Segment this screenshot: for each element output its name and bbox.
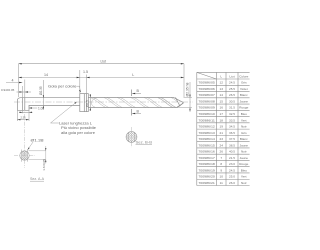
svg-text:700986/07: 700986/07 xyxy=(198,93,215,97)
svg-text:26.0: 26.0 xyxy=(229,181,235,185)
svg-text:Bleu: Bleu xyxy=(241,168,247,172)
svg-text:21.5: 21.5 xyxy=(229,156,235,160)
svg-text:23: 23 xyxy=(219,137,223,141)
svg-text:23.0: 23.0 xyxy=(229,162,235,166)
svg-text:33.5: 33.5 xyxy=(229,118,235,122)
svg-text:14: 14 xyxy=(219,93,223,97)
svg-text:Sez. A-A: Sez. A-A xyxy=(30,177,45,181)
svg-text:Gris: Gris xyxy=(241,131,247,135)
svg-text:alla gola per colore: alla gola per colore xyxy=(61,131,95,135)
svg-text:700986/12: 700986/12 xyxy=(198,125,215,129)
svg-text:Jaune: Jaune xyxy=(240,143,249,147)
svg-text:L: L xyxy=(220,74,222,78)
svg-text:38.5: 38.5 xyxy=(229,143,235,147)
svg-text:36.5: 36.5 xyxy=(229,131,235,135)
svg-text:Rouge: Rouge xyxy=(239,162,248,166)
svg-text:700986/19: 700986/19 xyxy=(198,168,215,172)
svg-text:Ø2.5: Ø2.5 xyxy=(86,100,90,107)
svg-text:700986/18: 700986/18 xyxy=(198,162,215,166)
svg-text:24.5: 24.5 xyxy=(229,81,235,85)
svg-text:L: L xyxy=(132,73,134,77)
svg-text:Vert: Vert xyxy=(241,118,247,122)
svg-text:700986/21: 700986/21 xyxy=(198,181,215,185)
svg-text:14: 14 xyxy=(44,73,48,77)
svg-text:Gola per colore: Gola per colore xyxy=(48,84,77,88)
svg-text:700986/11: 700986/11 xyxy=(198,118,215,122)
svg-text:12: 12 xyxy=(219,81,223,85)
svg-text:25.5: 25.5 xyxy=(229,87,235,91)
svg-text:37.5: 37.5 xyxy=(229,137,235,141)
svg-text:13: 13 xyxy=(219,87,223,91)
svg-text:30.5: 30.5 xyxy=(229,99,235,103)
svg-text:21: 21 xyxy=(219,131,223,135)
svg-text:700986/15: 700986/15 xyxy=(198,143,215,147)
svg-text:0.94±0.05: 0.94±0.05 xyxy=(1,88,15,92)
svg-text:2.35: 2.35 xyxy=(21,116,27,120)
svg-text:26: 26 xyxy=(219,150,223,154)
svg-text:700986/14: 700986/14 xyxy=(198,137,215,141)
svg-text:19: 19 xyxy=(219,125,223,129)
svg-text:10: 10 xyxy=(219,175,223,179)
svg-text:Ø1.38: Ø1.38 xyxy=(31,138,44,142)
svg-text:Ltot: Ltot xyxy=(101,60,107,64)
svg-text:16: 16 xyxy=(219,106,223,110)
svg-text:Ltot: Ltot xyxy=(229,74,234,78)
svg-text:Jaune: Jaune xyxy=(240,156,249,160)
svg-text:34.5: 34.5 xyxy=(229,125,235,129)
svg-text:Noir: Noir xyxy=(241,181,247,185)
svg-text:1.5: 1.5 xyxy=(83,70,88,74)
svg-text:Rouge: Rouge xyxy=(239,106,248,110)
svg-text:700986/20: 700986/20 xyxy=(198,175,215,179)
svg-text:Jaune: Jaune xyxy=(240,99,249,103)
svg-text:Gris: Gris xyxy=(241,81,247,85)
svg-text:700986/16: 700986/16 xyxy=(198,150,215,154)
svg-text:Sez. B-B: Sez. B-B xyxy=(136,140,153,144)
svg-text:9: 9 xyxy=(220,168,222,172)
svg-text:Blanc: Blanc xyxy=(240,93,248,97)
svg-text:40.5: 40.5 xyxy=(229,150,235,154)
svg-text:7: 7 xyxy=(220,156,222,160)
svg-text:700986/06: 700986/06 xyxy=(198,87,215,91)
svg-text:700986/17: 700986/17 xyxy=(198,156,215,160)
svg-text:700986/09: 700986/09 xyxy=(198,106,215,110)
svg-text:8: 8 xyxy=(220,162,222,166)
svg-text:18: 18 xyxy=(219,118,223,122)
svg-text:17: 17 xyxy=(219,112,223,116)
svg-text:4: 4 xyxy=(12,79,14,83)
svg-text:Bleu: Bleu xyxy=(241,112,247,116)
svg-text:Ø2.35 h8: Ø2.35 h8 xyxy=(185,82,189,96)
svg-text:Laser lunghezza L: Laser lunghezza L xyxy=(59,121,92,125)
svg-text:11: 11 xyxy=(220,181,223,185)
svg-text:32.5: 32.5 xyxy=(229,112,235,116)
svg-text:1.08: 1.08 xyxy=(38,106,44,110)
svg-text:Blanc: Blanc xyxy=(240,137,248,141)
svg-text:700986/08: 700986/08 xyxy=(198,99,215,103)
svg-text:Violet: Violet xyxy=(240,87,248,91)
svg-text:Colore: Colore xyxy=(239,74,248,78)
svg-text:Noir: Noir xyxy=(241,150,247,154)
svg-text:Noir: Noir xyxy=(241,125,247,129)
svg-text:700986/13: 700986/13 xyxy=(198,131,215,135)
svg-text:26.5: 26.5 xyxy=(229,93,235,97)
svg-text:24.5: 24.5 xyxy=(229,168,235,172)
svg-text:700986/05: 700986/05 xyxy=(198,81,215,85)
svg-text:15: 15 xyxy=(219,99,223,103)
svg-text:Vert: Vert xyxy=(241,175,247,179)
svg-text:700986/10: 700986/10 xyxy=(198,112,215,116)
svg-text:1.6±0.05: 1.6±0.05 xyxy=(42,159,46,171)
svg-text:31.5: 31.5 xyxy=(229,106,235,110)
svg-text:Più vicino possibile: Più vicino possibile xyxy=(61,126,96,130)
svg-text:Ø2.35: Ø2.35 xyxy=(39,86,43,95)
svg-text:25.0: 25.0 xyxy=(229,175,235,179)
svg-text:24: 24 xyxy=(219,143,223,147)
